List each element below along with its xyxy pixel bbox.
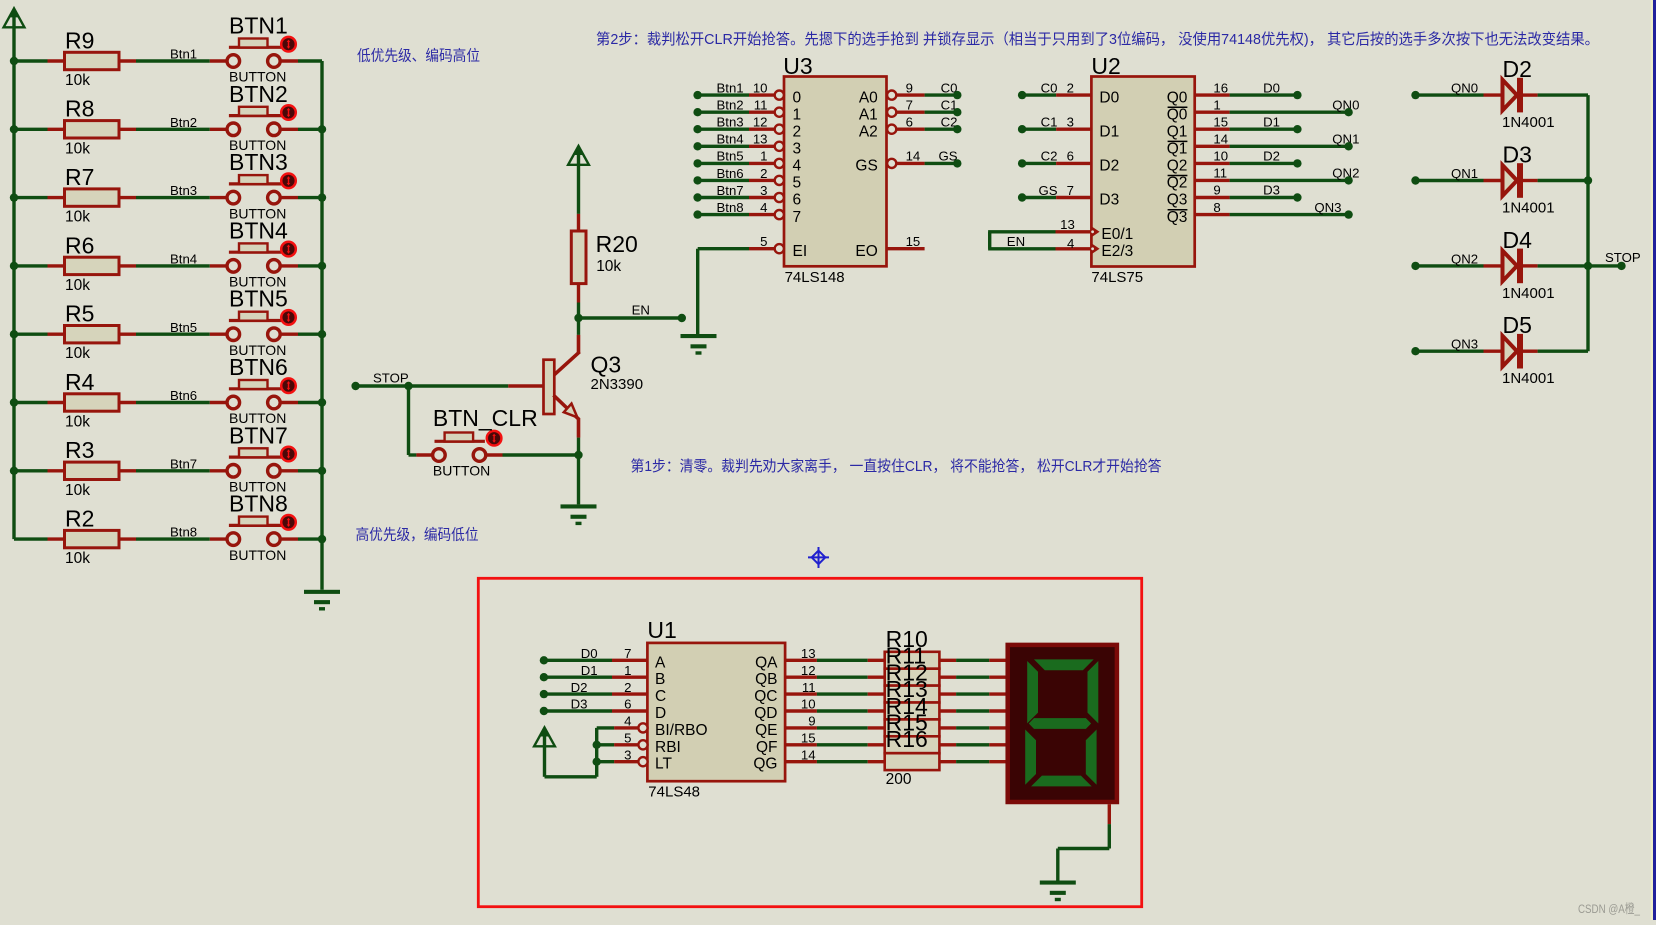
svg-text:Btn3: Btn3 (717, 115, 744, 130)
svg-text:R2: R2 (65, 506, 94, 532)
pin 14 U3 output GS (855, 149, 924, 175)
wire U1 control rail (545, 728, 597, 777)
svg-text:Q2: Q2 (1167, 175, 1188, 192)
svg-text:EN: EN (1007, 234, 1025, 249)
svg-text:BTN6: BTN6 (229, 354, 288, 380)
node net QN0 end (diode side) (1411, 91, 1419, 99)
wire U1 QE to resistor (817, 726, 885, 729)
svg-text:14: 14 (1213, 132, 1228, 147)
svg-text:BUTTON: BUTTON (229, 547, 286, 563)
wire R14 to display (939, 726, 1005, 729)
node net STOP (left) (351, 382, 359, 390)
resistor R10 (885, 626, 940, 669)
wire U3 input Btn1 (698, 80, 775, 95)
svg-text:D5: D5 (1503, 312, 1532, 338)
svg-text:QG: QG (753, 756, 777, 773)
svg-text:1: 1 (624, 663, 631, 678)
svg-text:14: 14 (906, 149, 921, 164)
node net D2 end (U1 side) (540, 690, 548, 698)
node net C0 end (953, 91, 961, 99)
transistor Q3 (544, 318, 644, 438)
svg-text:A: A (655, 654, 666, 671)
svg-text:74LS148: 74LS148 (785, 269, 845, 286)
svg-text:Q0: Q0 (1167, 106, 1188, 123)
wire net C2 (925, 115, 958, 130)
wire net Btn4 (136, 252, 210, 267)
svg-text:1: 1 (1213, 97, 1220, 112)
svg-text:U3: U3 (783, 53, 812, 79)
wire U3 input Btn7 (698, 183, 775, 198)
wire net QN3 (U2) (1230, 200, 1349, 215)
node net QN2 end (U2 side) (1344, 176, 1352, 184)
svg-text:GS: GS (855, 158, 877, 175)
svg-text:16: 16 (1213, 80, 1228, 95)
pin 12 U3 input 2 (753, 115, 801, 141)
svg-text:D2: D2 (571, 680, 588, 695)
svg-text:LT: LT (655, 756, 672, 773)
button BTN6 (210, 354, 298, 426)
svg-text:EO: EO (855, 243, 877, 260)
svg-text:10k: 10k (65, 482, 90, 499)
pin 1 U3 input 4 (760, 149, 801, 175)
wire row Btn2 right (298, 128, 322, 131)
pin 15 U3 EO (855, 234, 924, 260)
button BTN8 (210, 491, 298, 563)
button BTN2 (210, 81, 298, 153)
svg-text:6: 6 (793, 192, 802, 209)
svg-text:C2: C2 (1041, 149, 1058, 164)
wire U2 input C2 (1022, 149, 1091, 164)
node junction emitter/CLR (574, 451, 582, 459)
wire net EN loop (U2 enable) (988, 232, 1055, 249)
wire row Btn1 left (14, 59, 48, 62)
node net QN2 end (diode side) (1411, 262, 1419, 270)
node EN junction (574, 314, 582, 322)
node net D1 end (U2 side) (1293, 125, 1301, 133)
pin 15 U1 output QF (756, 731, 817, 756)
pin 5 U3 EI (749, 234, 807, 260)
svg-text:10k: 10k (596, 258, 621, 275)
svg-text:BI/RBO: BI/RBO (655, 722, 708, 739)
wire U3 input Btn5 (698, 149, 775, 164)
svg-text:Btn4: Btn4 (717, 132, 744, 147)
svg-text:7: 7 (793, 209, 802, 226)
resistor R8 (48, 96, 137, 158)
svg-text:10k: 10k (65, 277, 90, 294)
wire row Btn5 right (298, 333, 322, 336)
wire net D3 (U2) (1230, 183, 1298, 198)
svg-text:Btn4: Btn4 (170, 252, 197, 267)
node net C0 end (U2) (1018, 91, 1026, 99)
node junction right rail row 7 (318, 467, 326, 475)
wire row Btn7 right (298, 469, 322, 472)
resistor R11 (885, 643, 940, 686)
button BTN1 (210, 13, 298, 85)
wire row Btn4 left (14, 264, 48, 267)
svg-text:Q1: Q1 (1167, 123, 1188, 140)
node junction right rail row 6 (318, 398, 326, 406)
svg-text:10k: 10k (65, 550, 90, 567)
node net C2 end (U2) (1018, 159, 1026, 167)
button BTN5 (210, 286, 298, 358)
node junction right rail row 4 (318, 262, 326, 270)
pin 9 U1 output QE (755, 714, 817, 739)
segment A (top) (1034, 659, 1094, 670)
wire row Btn7 left (14, 469, 48, 472)
node Btn7 wire end (693, 193, 701, 201)
svg-text:R4: R4 (65, 369, 95, 395)
svg-text:13: 13 (801, 646, 816, 661)
svg-text:R7: R7 (65, 164, 94, 190)
node net C1 end (U2) (1018, 125, 1026, 133)
svg-text:4: 4 (760, 200, 767, 215)
svg-text:BTN2: BTN2 (229, 81, 288, 107)
node net QN3 end (diode side) (1411, 347, 1419, 355)
node net QN0 end (U2 side) (1344, 108, 1352, 116)
wire net C0 (925, 80, 958, 95)
wire CLR branch down (409, 386, 417, 455)
wire net QN0 (diode D2 anode) (1416, 81, 1484, 96)
resistor R20 (571, 214, 638, 303)
svg-text:3: 3 (1067, 115, 1074, 130)
node net D0 end (U2 side) (1293, 91, 1301, 99)
wire net Btn2 (136, 115, 210, 130)
pin 9 U3 output A0 (859, 80, 925, 106)
svg-text:7: 7 (624, 646, 631, 661)
node net GS end (U2) (1018, 193, 1026, 201)
segment D (bottom) (1031, 776, 1092, 787)
node junction left rail row 2 (10, 125, 18, 133)
wire U2 input C0 (1022, 80, 1091, 95)
button BTN7 (210, 422, 298, 494)
wire R16 to display (939, 760, 1005, 763)
svg-text:BTN8: BTN8 (229, 491, 288, 517)
pin 3 U3 input 6 (760, 183, 801, 209)
svg-text:13: 13 (1060, 217, 1075, 232)
svg-text:3: 3 (793, 141, 802, 158)
svg-text:10k: 10k (65, 414, 90, 431)
svg-text:14: 14 (801, 747, 816, 762)
ground (U3 EI) (681, 334, 717, 355)
diode D2 1N4001 (1484, 56, 1555, 131)
svg-text:6: 6 (906, 115, 913, 130)
svg-text:74LS48: 74LS48 (648, 784, 700, 801)
resistor R4 (48, 369, 137, 431)
svg-text:D3: D3 (1099, 192, 1119, 209)
wire U1 QA to resistor (817, 659, 885, 662)
wire net D0 (U1 input A) (544, 646, 648, 661)
svg-text:R3: R3 (65, 437, 94, 463)
node junction left rail row 1 (10, 57, 18, 65)
svg-text:D2: D2 (1503, 56, 1532, 82)
wire R12 to display (939, 692, 1005, 695)
ground (left column) (304, 590, 340, 611)
svg-text:2: 2 (793, 123, 802, 140)
wire U1 QC to resistor (817, 692, 885, 695)
node junction left rail row 7 (10, 467, 18, 475)
svg-text:R6: R6 (65, 232, 94, 258)
svg-text:7: 7 (1067, 183, 1074, 198)
svg-text:QF: QF (756, 739, 778, 756)
resistor R7 (48, 164, 137, 226)
wire net GS (925, 149, 958, 164)
svg-text:15: 15 (801, 731, 816, 746)
svg-text:15: 15 (1213, 114, 1228, 129)
svg-text:D3: D3 (1503, 142, 1532, 168)
diode D3 1N4001 (1484, 142, 1555, 217)
svg-text:6: 6 (624, 697, 631, 712)
pin 11 U3 input 1 (754, 98, 801, 124)
wire BTN_CLR to emitter (503, 453, 579, 456)
pin 1 U2 output Q0 inverted (1167, 97, 1230, 123)
svg-text:QN1: QN1 (1451, 166, 1478, 181)
svg-text:Btn2: Btn2 (717, 98, 744, 113)
wire R11 to display (939, 676, 1005, 679)
wire R15 to display (939, 743, 1005, 746)
svg-text:4: 4 (624, 714, 631, 729)
pin 13 U1 output QA (755, 646, 817, 671)
svg-text:5: 5 (760, 234, 767, 249)
button BTN_CLR (416, 405, 537, 478)
button BTN3 (210, 149, 298, 221)
wire U1 BI/RBO to rail (597, 726, 614, 729)
svg-text:Btn8: Btn8 (170, 525, 197, 540)
svg-text:0: 0 (793, 89, 802, 106)
svg-text:QN3: QN3 (1451, 337, 1478, 352)
wire net Btn3 (136, 183, 210, 198)
svg-text:4: 4 (1067, 236, 1074, 251)
svg-text:D2: D2 (1099, 158, 1119, 175)
svg-text:D4: D4 (1503, 227, 1533, 253)
node junction STOP/CLR branch (404, 382, 412, 390)
svg-text:第1步：清零。裁判先劝大家离手， 一直按住CLR， 将不能抢: 第1步：清零。裁判先劝大家离手， 一直按住CLR， 将不能抢答， 松开CLR才开… (631, 457, 1162, 475)
pin 4 U3 input 7 (760, 200, 801, 226)
svg-text:BTN_CLR: BTN_CLR (433, 405, 538, 431)
node net D3 end (U1 side) (540, 707, 548, 715)
IC U3 74LS148 body (783, 53, 886, 286)
svg-text:15: 15 (906, 234, 921, 249)
svg-text:Btn8: Btn8 (717, 200, 744, 215)
wire net QN0 (U2) (1230, 97, 1360, 112)
pin 12 U1 output QB (755, 663, 817, 688)
svg-text:9: 9 (1213, 183, 1220, 198)
svg-text:1: 1 (793, 106, 802, 123)
wire net QN2 (diode D4 anode) (1416, 251, 1484, 266)
svg-text:EI: EI (793, 243, 808, 260)
node net STOP end (right) (1617, 262, 1625, 270)
wire net QN2 (U2) (1230, 166, 1360, 181)
svg-text:D1: D1 (581, 663, 598, 678)
svg-text:11: 11 (1213, 166, 1227, 181)
resistor R2 (48, 506, 137, 568)
svg-text:12: 12 (753, 115, 768, 130)
wire row Btn5 left (14, 333, 48, 336)
svg-text:10k: 10k (65, 72, 90, 89)
wire U3 input Btn6 (698, 166, 775, 181)
wire D2 cathode to bus (1538, 93, 1588, 96)
right edge stripe (1651, 0, 1656, 920)
svg-text:BUTTON: BUTTON (433, 462, 490, 478)
wire net D1 (U1 input B) (544, 663, 648, 678)
wire net Btn7 (136, 456, 210, 471)
node Btn6 wire end (693, 176, 701, 184)
node Btn8 wire end (693, 210, 701, 218)
wire row Btn8 left (14, 537, 48, 540)
svg-text:RBI: RBI (655, 739, 681, 756)
wire cathode bus vertical (1586, 95, 1589, 351)
pin 13 U2 E0/1 (1056, 217, 1134, 243)
svg-text:5: 5 (624, 731, 631, 746)
node Btn5 wire end (693, 159, 701, 167)
node net GS end (953, 159, 961, 167)
svg-text:QB: QB (755, 671, 777, 688)
IC U1 74LS48 body (647, 617, 785, 801)
svg-text:1: 1 (760, 149, 767, 164)
svg-text:低优先级、编码高位: 低优先级、编码高位 (357, 48, 480, 65)
svg-text:1N4001: 1N4001 (1502, 200, 1555, 217)
svg-text:BTN5: BTN5 (229, 286, 288, 312)
svg-text:R9: R9 (65, 27, 94, 53)
origin marker (808, 547, 829, 568)
svg-text:12: 12 (801, 663, 816, 678)
svg-text:8: 8 (1213, 200, 1220, 215)
svg-text:BTN1: BTN1 (229, 13, 288, 39)
svg-text:EN: EN (632, 302, 650, 317)
node junction bus D4 (1584, 262, 1592, 270)
node junction RBI rail (593, 741, 601, 749)
svg-text:7: 7 (906, 98, 913, 113)
node net D2 end (U2 side) (1293, 159, 1301, 167)
wire net EN (579, 302, 682, 318)
pin 14 U1 output QG (753, 747, 817, 772)
svg-text:74LS75: 74LS75 (1091, 269, 1143, 286)
svg-text:Btn5: Btn5 (717, 149, 744, 164)
svg-text:Q3: Q3 (1167, 192, 1188, 209)
wire net STOP to base (356, 370, 544, 386)
node junction left rail row 5 (10, 330, 18, 338)
svg-text:Q1: Q1 (1167, 141, 1188, 158)
svg-text:11: 11 (802, 680, 816, 695)
svg-text:10: 10 (801, 697, 816, 712)
wire right rail to ground (320, 61, 323, 590)
svg-text:QD: QD (754, 705, 777, 722)
wire R20 to collector node (577, 303, 580, 319)
pin 15 U2 output Q1 (1167, 114, 1230, 140)
wire net D1 (U2) (1230, 114, 1298, 129)
svg-text:1N4001: 1N4001 (1502, 285, 1555, 302)
node junction right rail row 3 (318, 193, 326, 201)
wire R13 to display (939, 709, 1005, 712)
wire row Btn2 left (14, 128, 48, 131)
svg-text:GS: GS (1038, 183, 1057, 198)
svg-text:2: 2 (760, 166, 767, 181)
svg-text:2: 2 (1067, 80, 1074, 95)
node net QN3 end (U2 side) (1344, 210, 1352, 218)
svg-text:Btn7: Btn7 (717, 183, 744, 198)
svg-text:D1: D1 (1099, 123, 1119, 140)
svg-text:A0: A0 (859, 89, 878, 106)
svg-text:BTN3: BTN3 (229, 149, 288, 175)
svg-text:9: 9 (808, 714, 815, 729)
resistor R3 (48, 437, 137, 499)
svg-text:11: 11 (754, 98, 768, 113)
svg-text:B: B (655, 671, 665, 688)
svg-text:BTN4: BTN4 (229, 217, 288, 243)
wire U3 input Btn4 (698, 132, 775, 147)
svg-text:QE: QE (755, 722, 777, 739)
svg-text:Q2: Q2 (1167, 158, 1188, 175)
wire net QN3 (diode D5 anode) (1416, 337, 1484, 352)
pin 8 U2 output Q3 inverted (1167, 200, 1230, 226)
wire row Btn6 left (14, 401, 48, 404)
node net C2 end (953, 125, 961, 133)
svg-text:200: 200 (886, 771, 912, 788)
svg-text:Q3: Q3 (1167, 209, 1188, 226)
node junction left rail row 3 (10, 193, 18, 201)
svg-text:CSDN @A橙_: CSDN @A橙_ (1578, 901, 1640, 916)
svg-text:R5: R5 (65, 301, 94, 327)
pin 10 U2 output Q2 (1167, 149, 1230, 175)
wire emitter down (577, 438, 580, 455)
svg-text:D1: D1 (1263, 114, 1280, 129)
wire row Btn8 right (298, 537, 322, 540)
node net D3 end (U2 side) (1293, 193, 1301, 201)
pin 9 U2 output Q3 (1167, 183, 1230, 209)
pin 10 U1 output QD (754, 697, 817, 722)
wire U1 QF to resistor (817, 743, 885, 746)
resistor R6 (48, 232, 137, 294)
svg-text:10: 10 (753, 80, 768, 95)
svg-text:D0: D0 (1263, 80, 1280, 95)
node net D1 end (U1 side) (540, 673, 548, 681)
wire U1 QG to resistor (817, 760, 885, 763)
svg-text:A2: A2 (859, 123, 878, 140)
svg-text:D0: D0 (581, 646, 598, 661)
node net C1 end (953, 108, 961, 116)
wire U1 QD to resistor (817, 709, 885, 712)
7-segment display (1008, 645, 1117, 802)
svg-text:STOP: STOP (373, 370, 409, 385)
wire row Btn3 right (298, 196, 322, 199)
wire net D2 (U2) (1230, 149, 1298, 164)
svg-text:R20: R20 (596, 231, 638, 257)
pin 11 U1 output QC (754, 680, 817, 705)
wire net C1 (925, 98, 958, 113)
wire left rail (12, 11, 15, 539)
power symbol VCC (top-left) (4, 8, 25, 27)
svg-text:Btn7: Btn7 (170, 456, 197, 471)
segment F (top-left) (1027, 661, 1038, 723)
wire U2 input C1 (1022, 115, 1091, 130)
svg-text:U2: U2 (1091, 53, 1120, 79)
svg-text:3: 3 (624, 747, 631, 762)
svg-text:QC: QC (754, 688, 777, 705)
svg-text:高优先级，编码低位: 高优先级，编码低位 (356, 527, 479, 544)
svg-text:10k: 10k (65, 209, 90, 226)
wire net QN1 (U2) (1230, 132, 1360, 147)
svg-text:D: D (655, 705, 666, 722)
svg-text:1N4001: 1N4001 (1502, 370, 1555, 387)
svg-text:Btn2: Btn2 (170, 115, 197, 130)
wire D3 cathode to bus (1538, 179, 1588, 182)
wire U1 RBI to rail (597, 743, 614, 746)
power symbol VCC (U1) (534, 727, 555, 777)
button BTN4 (210, 217, 298, 289)
wire row Btn1 right (298, 59, 322, 62)
svg-text:R16: R16 (886, 726, 928, 752)
svg-text:Btn5: Btn5 (170, 320, 197, 335)
diode D5 1N4001 (1484, 312, 1555, 387)
